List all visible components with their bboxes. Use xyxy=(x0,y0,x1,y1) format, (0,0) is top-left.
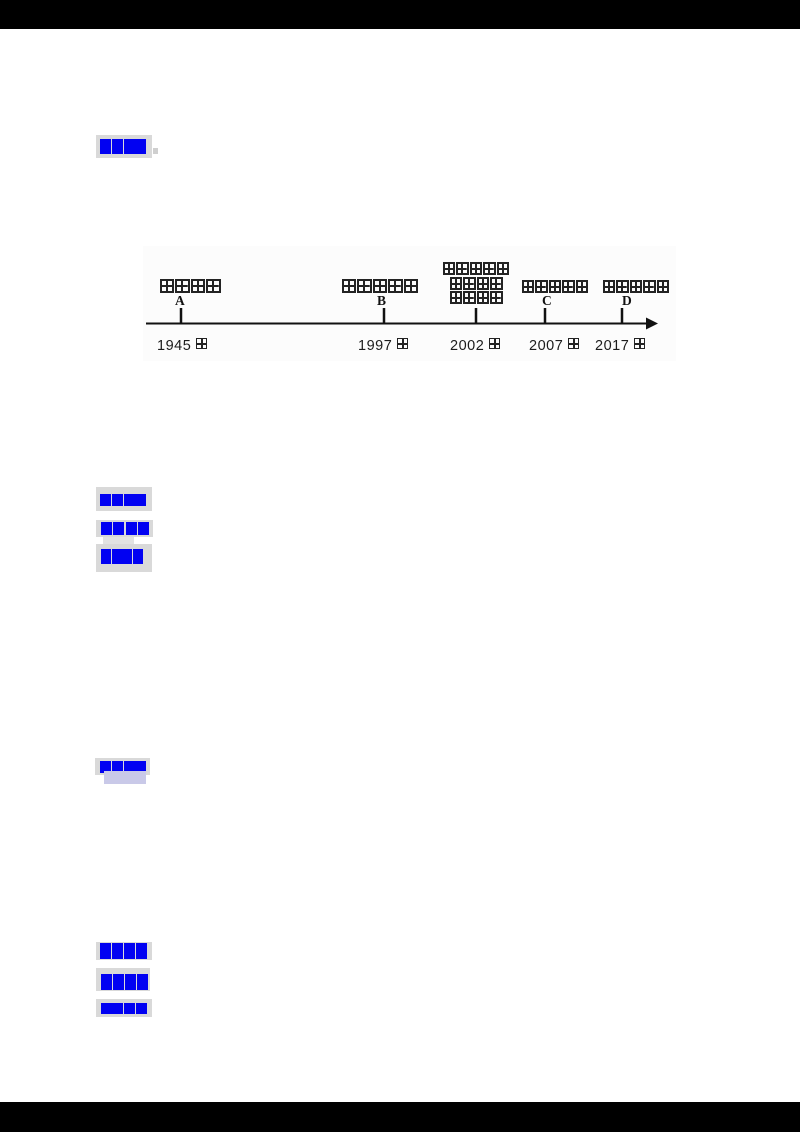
label 点评 highlight box xyxy=(95,758,150,775)
label 考点 blue blob xyxy=(100,494,111,506)
speck right of Q1 label xyxy=(153,148,158,154)
label 解答 highlight box xyxy=(96,544,152,572)
diagram label B xyxy=(377,293,386,309)
label 点评 blue blob xyxy=(100,761,111,773)
year 2002年 xyxy=(450,338,501,354)
diagram label D xyxy=(622,293,632,309)
label Q2-点评 highlight box xyxy=(96,999,152,1017)
top black band xyxy=(0,0,800,29)
label Q2-分析 highlight box xyxy=(96,968,150,991)
diagram label 中共七大 xyxy=(159,279,223,297)
arrowhead xyxy=(646,318,658,330)
small gray smudge under 分析 xyxy=(103,537,134,546)
label Q1 highlight box xyxy=(96,135,152,158)
label 解答 blue blob xyxy=(101,549,111,564)
label 考点 highlight box xyxy=(96,487,152,511)
label Q2-分析 blue blob xyxy=(101,974,112,990)
tick C xyxy=(544,308,547,323)
tick A xyxy=(180,308,183,323)
label Q2-点评 blue blob xyxy=(101,1003,112,1014)
timeline axis with arrowhead and ticks xyxy=(143,246,676,361)
tick D xyxy=(621,308,624,323)
label Q2-考点 highlight box xyxy=(96,942,152,960)
year 2007年 xyxy=(529,338,580,354)
year 2017年 xyxy=(595,338,646,354)
lavender smudge under 点评 xyxy=(104,771,146,784)
label 分析 blue blob xyxy=(101,522,112,535)
year 1997年 xyxy=(358,338,409,354)
diagram label 中共十九大 xyxy=(602,280,676,298)
bottom black band xyxy=(0,1102,800,1132)
label Q1 blue text blob "1.(2分)" xyxy=(100,139,111,154)
label 分析 highlight box xyxy=(96,520,153,537)
axis line xyxy=(146,323,652,325)
year 1945年 xyxy=(157,338,208,354)
label Q2-考点 blue blob xyxy=(100,943,111,959)
diagram label 三个代表 (line 2) xyxy=(449,277,509,295)
tick B xyxy=(383,308,386,323)
diagram label 重要思想 (line 3) xyxy=(449,291,509,309)
diagram label 中共十五大 xyxy=(341,279,421,297)
timeline diagram panel xyxy=(143,246,676,361)
tick 2002 xyxy=(475,308,478,323)
diagram label C xyxy=(542,293,552,309)
diagram label 中共十七大 xyxy=(521,280,595,298)
diagram label A xyxy=(175,293,185,309)
diagram label 中共十六大 (line 1) xyxy=(442,262,514,280)
